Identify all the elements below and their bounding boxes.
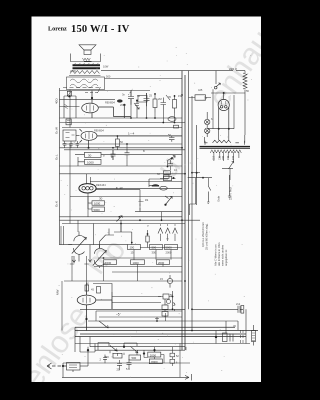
- svg-text:150 W/I - IV: 150 W/I - IV: [71, 24, 130, 35]
- svg-text:B: B: [143, 149, 145, 153]
- terminal 220 prüf: [228, 175, 231, 199]
- wire rail y266: [94, 266, 182, 268]
- svg-text:5000: 5000: [166, 246, 173, 250]
- speaker LS: [79, 45, 96, 50]
- wire rails y327-336 long: [75, 327, 258, 336]
- resistor box R13 30: [85, 152, 102, 157]
- svg-text:40Ω: 40Ω: [55, 98, 59, 104]
- cluster components: [215, 336, 217, 338]
- switch S4 mains: [207, 186, 211, 204]
- svg-text:425: 425: [198, 88, 203, 92]
- mains switch S1: [214, 71, 220, 89]
- resistor R10: [153, 93, 157, 113]
- wire lamp feed: [207, 89, 234, 128]
- svg-text:0,8 CuL 25x0,04 mm: 0,8 CuL 25x0,04 mm: [201, 221, 205, 247]
- triode V4 detector: [77, 283, 112, 331]
- resistor box R18: [104, 260, 117, 265]
- title Lorenz 150 W/I-IV: [48, 24, 130, 35]
- node mains left: [196, 172, 198, 174]
- svg-text:#1: #1: [145, 198, 149, 202]
- resistor box Sp: [189, 95, 212, 100]
- wire partial rails right mid: [99, 297, 182, 318]
- wire antenna riser: [63, 347, 89, 378]
- tuning capacitor C1: [68, 232, 86, 262]
- wire rail y272: [112, 271, 182, 273]
- wire rails y144-150: [60, 144, 186, 150]
- capacitor C9: [168, 160, 173, 171]
- svg-text:1W: 1W: [178, 94, 182, 98]
- transformer taps: [214, 152, 239, 161]
- wire left frame: [59, 88, 61, 245]
- svg-text:25 und 60 kOhm abgl.: 25 und 60 kOhm abgl.: [205, 223, 209, 250]
- tuning capacitor C2: [93, 245, 107, 268]
- svg-text:Alle C-Werte in cm: Alle C-Werte in cm: [214, 244, 218, 266]
- resistor R15: [160, 176, 176, 180]
- svg-text:100: 100: [130, 246, 135, 250]
- resistor box R14 1000: [78, 157, 101, 166]
- electrolytic cap: [238, 306, 243, 313]
- resistor R11: [173, 95, 177, 113]
- loop box right of V4: [93, 284, 112, 294]
- resistor box R17: [88, 197, 105, 212]
- triode V1 REN904: [82, 91, 147, 119]
- wire rectifier top: [211, 93, 245, 100]
- dashed S link: [128, 89, 133, 95]
- svg-text:5·6: 5·6: [126, 367, 130, 371]
- small box row2 right: [164, 171, 171, 175]
- wire rail y154.5 partial: [75, 154, 182, 156]
- rectifier U1: [218, 99, 229, 128]
- antenna arrow: [47, 363, 67, 369]
- svg-text:1500: 1500: [105, 261, 112, 265]
- wire rail y136: [97, 135, 182, 137]
- wire rail y258: [98, 257, 182, 259]
- svg-text:30: 30: [88, 154, 92, 158]
- resistor box R4: [150, 245, 163, 255]
- svg-text:wenn nicht anders: wenn nicht anders: [221, 244, 225, 266]
- svg-text:REN904: REN904: [94, 129, 104, 133]
- small boxes right mid: [158, 291, 175, 317]
- svg-text:10W: 10W: [103, 65, 109, 69]
- svg-text:Gr.W: Gr.W: [55, 127, 59, 134]
- pickup coils box: [67, 77, 105, 90]
- svg-text:Sp: Sp: [204, 96, 208, 100]
- scattered tiny value labels: [70, 65, 249, 329]
- wire mains tick: [188, 173, 212, 215]
- svg-text:1000: 1000: [87, 161, 94, 165]
- arrow down cap2: [88, 245, 91, 262]
- resistor R21 50 vertical: [85, 285, 89, 291]
- wire rails y345-347: [90, 346, 185, 348]
- svg-text:2x2: 2x2: [236, 302, 241, 306]
- switch S8: [98, 343, 117, 352]
- svg-text:angegeben ist: angegeben ist: [224, 249, 228, 266]
- svg-text:2000: 2000: [158, 261, 165, 265]
- wire rail y181 partial: [90, 181, 182, 183]
- svg-text:500: 500: [152, 246, 157, 250]
- resistor box R9b 8000: [149, 359, 162, 364]
- svg-text:150: 150: [222, 155, 225, 160]
- stepped wire: [100, 224, 133, 249]
- voltage selector switch S3: [222, 161, 234, 180]
- transformer core: [200, 146, 251, 148]
- svg-text:5–10: 5–10: [116, 186, 123, 190]
- cap tick on rail: [155, 317, 159, 322]
- left terminal box row2: [63, 130, 80, 141]
- coil box row3: [149, 179, 168, 190]
- svg-text:REN904: REN904: [105, 101, 115, 105]
- wire rail y189.6 partial: [96, 189, 140, 191]
- main vertical double rail: [182, 71, 185, 350]
- wire rail y321: [88, 321, 238, 330]
- svg-text:2000: 2000: [120, 103, 126, 107]
- capacitor C5: [161, 98, 167, 110]
- svg-text:500: 500: [132, 356, 137, 360]
- left verticals row4: [62, 256, 89, 331]
- switch S9: [124, 343, 138, 353]
- cap with dot: [135, 100, 139, 119]
- wire rails y211-224: [60, 212, 201, 224]
- scan noise: [61, 56, 252, 373]
- component x169 circle: [167, 275, 172, 288]
- dashed feedback line: [63, 88, 101, 93]
- wire rail y281: [64, 280, 182, 282]
- resistor box R3: [128, 245, 141, 255]
- triode V2: [80, 129, 183, 149]
- right small pair: [170, 353, 179, 364]
- dashed link: [139, 199, 144, 211]
- component at 163,175 (R 50): [164, 175, 170, 178]
- arrow down cap1: [72, 256, 75, 263]
- wire upper rails: [60, 91, 151, 100]
- svg-text:300: 300: [152, 251, 157, 255]
- trimmer arrows: [134, 95, 170, 109]
- capacitor C8: [125, 149, 130, 160]
- svg-text:2M: 2M: [158, 97, 162, 101]
- wire bottom rail with arrow: [62, 374, 192, 381]
- tap labels: [213, 155, 236, 160]
- notes block rotated: [214, 243, 229, 266]
- vertical riser wires mid: [61, 90, 175, 322]
- wire rail y350: [95, 349, 185, 351]
- wire rails y309-311: [80, 309, 185, 311]
- resistor box R16: [92, 201, 105, 206]
- wire rail y244.6: [60, 244, 128, 246]
- svg-text:240: 240: [232, 155, 235, 160]
- svg-text:220: 220: [227, 155, 230, 160]
- svg-text:500: 500: [106, 75, 111, 79]
- svg-text:8000: 8000: [151, 360, 158, 364]
- svg-text:110: 110: [213, 156, 216, 160]
- wire rails y118-128: [60, 118, 186, 128]
- contact forks group: [158, 224, 177, 241]
- svg-text:30: 30: [99, 197, 103, 201]
- resistor box R20: [157, 260, 170, 265]
- dial lamp La1: [205, 112, 210, 128]
- wire bottom verticals: [62, 337, 186, 378]
- wire vertical x196.6 mains left: [196, 125, 198, 205]
- wire rail y343: [75, 343, 250, 345]
- svg-text:125: 125: [219, 155, 222, 160]
- capacitor C7: [111, 150, 116, 160]
- switch S7: [99, 321, 108, 328]
- resistor box R19: [131, 260, 145, 265]
- rotated note kOhm: [205, 187, 233, 250]
- field coil L1: [243, 71, 247, 93]
- input loop row1: [60, 91, 80, 118]
- switch S5: [167, 125, 179, 167]
- svg-text:Erde: Erde: [217, 195, 221, 201]
- svg-text:RES164: RES164: [96, 183, 106, 187]
- svg-text:220 V Prüf: 220 V Prüf: [229, 187, 233, 200]
- capacitor C10: [117, 360, 123, 372]
- wire secondary top rail: [105, 78, 183, 80]
- node rect pins: [218, 128, 220, 130]
- cathode resistor with dot: [140, 230, 182, 248]
- wire rail y363: [63, 362, 190, 364]
- svg-text:MW: MW: [56, 290, 60, 295]
- wire rails y166-174: [60, 166, 186, 174]
- svg-text:5000: 5000: [94, 208, 101, 212]
- secondary winding: [205, 140, 239, 143]
- output tetrode V3 RES164: [79, 174, 182, 197]
- switch S6: [164, 196, 172, 206]
- output transformer winding: [69, 71, 101, 76]
- left margin rotated labels: [55, 98, 60, 295]
- coil ellipse on rail: [168, 117, 176, 122]
- magnet hatch: [74, 63, 99, 65]
- dial lamp La2: [205, 128, 210, 137]
- svg-text:Lorenz: Lorenz: [48, 26, 67, 33]
- svg-text:Gr.K: Gr.K: [55, 201, 59, 207]
- svg-text:–5: –5: [116, 313, 120, 317]
- resistor box R7 450: [104, 353, 122, 359]
- caps under box row2: [63, 141, 79, 148]
- svg-text:1000: 1000: [94, 202, 101, 206]
- svg-text:2000: 2000: [150, 353, 157, 357]
- stepped wire bottom left: [75, 327, 95, 352]
- scan noise 2: [59, 47, 249, 377]
- resistor box R9 2000: [148, 352, 161, 357]
- svg-text:220 V: 220 V: [229, 67, 237, 71]
- power verticals: [189, 71, 193, 331]
- capacitor C4: [144, 93, 150, 106]
- node rect top: [223, 92, 225, 94]
- resistor R12 50: [116, 135, 120, 150]
- magnet bars: [73, 65, 101, 68]
- cap left of row: [100, 355, 108, 364]
- power transformer T1: [205, 93, 246, 145]
- capacitor C11: [126, 359, 132, 371]
- capacitor C3: [128, 91, 134, 105]
- resistor box R8 500: [129, 355, 141, 360]
- box 50 under row1: [66, 119, 71, 125]
- svg-text:1—4: 1—4: [128, 132, 135, 136]
- svg-text:Gr.L: Gr.L: [55, 154, 59, 160]
- wire top rail to power: [101, 70, 245, 72]
- primary winding: [210, 150, 241, 153]
- resistor box R5: [165, 245, 178, 255]
- switch arm on rail: [94, 216, 123, 245]
- svg-text:alle R-Werte in Ohm: alle R-Werte in Ohm: [217, 243, 221, 266]
- svg-text:2800: 2800: [70, 69, 76, 73]
- antenna coupler box: [67, 363, 89, 371]
- wire rail y196.5: [70, 196, 182, 198]
